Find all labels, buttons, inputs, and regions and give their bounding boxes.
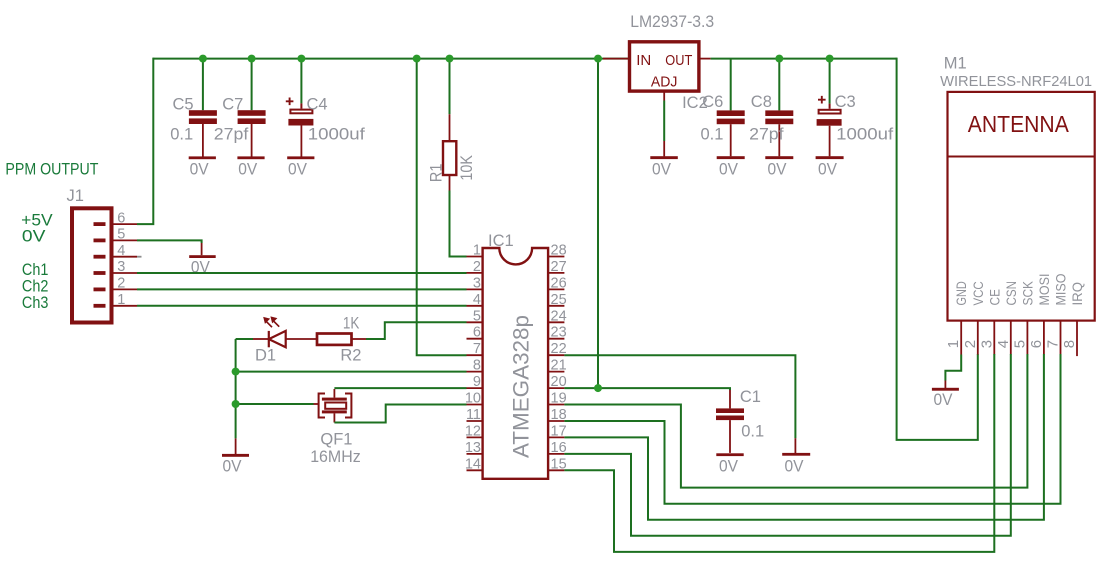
- resistor R1: [443, 59, 467, 257]
- wire top bus left segment: [153, 58, 630, 60]
- junction dot C4 bus: [297, 55, 305, 63]
- svg-text:1: 1: [945, 340, 962, 348]
- IC1 left pin numbers: [465, 243, 481, 473]
- svg-text:PPM OUTPUT: PPM OUTPUT: [5, 159, 98, 178]
- svg-text:CE: CE: [986, 289, 1002, 306]
- svg-text:MISO: MISO: [1053, 273, 1069, 305]
- svg-text:17: 17: [551, 423, 567, 439]
- wire bus riser to IC1 pin20: [597, 58, 599, 389]
- svg-text:1: 1: [473, 243, 481, 259]
- ground 0V under C8: [765, 156, 793, 179]
- svg-text:WIRELESS-NRF24L01: WIRELESS-NRF24L01: [940, 73, 1092, 90]
- svg-text:25: 25: [551, 292, 567, 308]
- wire to IC1 pin8: [236, 371, 467, 373]
- capacitor C3 polarized: [817, 59, 842, 157]
- svg-text:5: 5: [1011, 340, 1028, 348]
- svg-text:5: 5: [473, 308, 481, 324]
- svg-text:27pf: 27pf: [214, 125, 249, 143]
- junction dot pin8 tap: [232, 368, 240, 376]
- svg-text:1000uf: 1000uf: [308, 125, 365, 143]
- svg-text:ANTENNA: ANTENNA: [968, 111, 1070, 137]
- capacitor C5: [189, 59, 217, 157]
- svg-text:0V: 0V: [768, 161, 787, 179]
- wire top bus right segment from OUT: [711, 58, 897, 60]
- svg-text:ATMEGA328p: ATMEGA328p: [509, 315, 534, 458]
- ground 0V under C1: [716, 453, 743, 475]
- svg-text:1: 1: [117, 292, 125, 308]
- ground 0V under ADJ: [650, 156, 678, 179]
- svg-text:10K: 10K: [458, 155, 476, 181]
- svg-text:0.1: 0.1: [741, 423, 764, 441]
- svg-text:6: 6: [473, 325, 481, 341]
- svg-text:0V: 0V: [190, 161, 209, 179]
- svg-text:8: 8: [473, 358, 481, 374]
- svg-text:C7: C7: [222, 96, 243, 114]
- junction dot C7 bus: [248, 55, 256, 63]
- capacitor C1: [716, 408, 744, 453]
- svg-text:QF1: QF1: [320, 430, 352, 448]
- wire IC1 pin20 to C1: [564, 388, 730, 390]
- ground 0V under C7: [237, 156, 264, 178]
- svg-text:CSN: CSN: [1003, 281, 1019, 306]
- svg-text:3: 3: [473, 275, 481, 291]
- svg-text:3: 3: [978, 340, 995, 348]
- svg-text:J1: J1: [67, 187, 84, 205]
- wire to crystal case: [236, 403, 314, 405]
- wire IC1 pin16 to M1 CSN: [564, 354, 1010, 536]
- wire +5V riser to J1 pin6: [137, 58, 153, 225]
- wire bus riser to IC1 pin7: [417, 58, 467, 356]
- svg-text:1000uf: 1000uf: [836, 126, 893, 144]
- svg-text:2: 2: [473, 259, 481, 275]
- svg-text:16: 16: [551, 440, 567, 456]
- svg-text:3: 3: [117, 259, 125, 275]
- junction dot pin20 riser bus: [594, 55, 602, 63]
- wire IC1 pin18 to M1 MISO: [564, 354, 1060, 504]
- wire IC1 pin15 to M1 CE: [564, 354, 994, 552]
- svg-text:IRQ: IRQ: [1069, 282, 1085, 306]
- svg-text:2: 2: [117, 276, 125, 292]
- svg-text:20: 20: [551, 374, 567, 390]
- svg-text:15: 15: [551, 456, 567, 472]
- svg-text:24: 24: [551, 308, 567, 324]
- svg-text:22: 22: [551, 341, 567, 357]
- svg-text:6: 6: [117, 210, 125, 226]
- svg-text:C8: C8: [751, 93, 772, 111]
- wire crystal top plate to IC1 pin9: [334, 387, 466, 389]
- svg-text:0V: 0V: [238, 161, 257, 179]
- IC1 left pin stubs 1-14: [467, 257, 483, 471]
- junction dot C3 bus: [826, 55, 834, 63]
- svg-text:C6: C6: [702, 93, 723, 111]
- junction dot pin7 riser bus: [413, 55, 421, 63]
- svg-text:0.1: 0.1: [701, 126, 724, 144]
- op-amp IC1 ATMEGA328p body: [483, 248, 548, 479]
- svg-text:18: 18: [551, 407, 567, 423]
- wire crystal bottom plate to IC1 pin10: [334, 405, 466, 423]
- junction dot R1 bus: [446, 55, 454, 63]
- svg-text:ADJ: ADJ: [651, 74, 678, 91]
- svg-text:10: 10: [465, 391, 481, 407]
- LED D1: [236, 316, 317, 347]
- svg-text:6: 6: [1028, 340, 1045, 348]
- svg-text:9: 9: [473, 374, 481, 390]
- IC1 right pin stubs 28-15: [548, 257, 564, 471]
- svg-text:D1: D1: [255, 347, 276, 365]
- capacitor C6: [717, 59, 745, 157]
- ground 0V at J1 pin5: [189, 255, 216, 277]
- wire M1 GND pin1 to ground: [945, 355, 961, 381]
- svg-text:2: 2: [962, 340, 979, 348]
- svg-text:14: 14: [465, 456, 481, 472]
- ground 0V at pin22 net: [782, 453, 810, 475]
- svg-text:4: 4: [995, 340, 1012, 348]
- svg-text:R1: R1: [428, 164, 446, 183]
- wire IC1 pin17 to M1 MOSI: [564, 354, 1044, 520]
- svg-text:21: 21: [551, 358, 567, 374]
- svg-text:OUT: OUT: [665, 52, 692, 69]
- connector J1: [72, 208, 142, 322]
- svg-text:27pf: 27pf: [749, 126, 784, 144]
- junction dot pin20 C1: [594, 384, 602, 392]
- svg-text:0V: 0V: [818, 161, 837, 179]
- wire ADJ to ground: [663, 101, 665, 142]
- M1 pin stubs 1-8: [961, 321, 1077, 357]
- svg-text:0.1: 0.1: [170, 125, 193, 143]
- svg-text:4: 4: [117, 243, 125, 259]
- svg-text:0V: 0V: [934, 391, 953, 409]
- ground 0V under C5: [189, 156, 216, 178]
- svg-text:0V: 0V: [288, 161, 307, 179]
- M1 pin numbers 1-8: [945, 340, 1078, 348]
- svg-text:LM2937-3.3: LM2937-3.3: [630, 13, 714, 31]
- resistor R2: [317, 322, 467, 345]
- svg-text:28: 28: [551, 243, 567, 259]
- ground 0V under C3: [816, 156, 844, 179]
- capacitor C4 polarized: [286, 59, 314, 157]
- svg-text:1K: 1K: [343, 315, 360, 333]
- svg-text:VCC: VCC: [970, 281, 986, 305]
- svg-text:0V: 0V: [22, 226, 46, 245]
- wire IC1 pin19 to M1 SCK: [564, 354, 1027, 488]
- ground 0V under C4: [287, 156, 314, 178]
- svg-text:SCK: SCK: [1019, 280, 1035, 305]
- wire 3.3V rail to NRF VCC: [897, 58, 978, 440]
- svg-text:R2: R2: [340, 347, 361, 365]
- svg-text:0V: 0V: [719, 457, 738, 475]
- svg-text:27: 27: [551, 259, 567, 275]
- wire Ch3 J1 pin1 to IC1 pin4: [137, 305, 467, 307]
- wire LED cathode to ground rail: [235, 339, 237, 438]
- svg-text:C4: C4: [307, 96, 328, 114]
- voltage regulator IC2 LM2937-3.3: [603, 42, 711, 101]
- capacitor C8: [765, 59, 793, 157]
- svg-text:0V: 0V: [223, 458, 242, 476]
- ground 0V under C6: [717, 156, 745, 179]
- svg-text:12: 12: [465, 423, 481, 439]
- ground 0V at M1 GND: [932, 388, 959, 409]
- svg-text:GND: GND: [953, 281, 969, 305]
- svg-text:MOSI: MOSI: [1036, 274, 1052, 306]
- svg-text:23: 23: [551, 325, 567, 341]
- wire IC1 pin22 to ground: [564, 355, 795, 438]
- junction dot C5 bus: [199, 55, 207, 63]
- svg-text:11: 11: [466, 407, 481, 423]
- wire J1 pin5 to ground: [137, 240, 202, 243]
- svg-text:IN: IN: [636, 52, 651, 69]
- wire Ch2 J1 pin2 to IC1 pin3: [137, 288, 467, 290]
- svg-text:8: 8: [1061, 340, 1078, 348]
- svg-text:19: 19: [551, 391, 567, 407]
- svg-text:C1: C1: [740, 388, 761, 406]
- svg-text:M1: M1: [944, 55, 967, 73]
- svg-text:13: 13: [465, 440, 481, 456]
- svg-text:0V: 0V: [785, 457, 804, 475]
- svg-text:26: 26: [551, 275, 567, 291]
- junction dot C8 bus: [775, 55, 783, 63]
- svg-text:5: 5: [117, 227, 125, 243]
- svg-text:4: 4: [473, 292, 481, 308]
- capacitor C7: [238, 59, 266, 157]
- svg-text:Ch3: Ch3: [22, 293, 49, 312]
- svg-text:IC1: IC1: [488, 232, 514, 250]
- svg-text:7: 7: [1045, 340, 1062, 348]
- crystal QF1: [314, 389, 352, 423]
- svg-text:16MHz: 16MHz: [310, 448, 361, 466]
- svg-text:7: 7: [473, 341, 481, 357]
- svg-text:C5: C5: [173, 96, 194, 114]
- svg-text:0V: 0V: [719, 161, 738, 179]
- junction dot crystal ground tap: [232, 400, 240, 408]
- module M1 WIRELESS-NRF24L01: [948, 92, 1095, 321]
- IC1 right pin numbers: [551, 243, 567, 473]
- wire Ch1 J1 pin3 to IC1 pin2: [137, 272, 467, 274]
- svg-text:C3: C3: [835, 93, 856, 111]
- ground 0V under LED rail: [222, 454, 249, 476]
- svg-text:0V: 0V: [652, 161, 671, 179]
